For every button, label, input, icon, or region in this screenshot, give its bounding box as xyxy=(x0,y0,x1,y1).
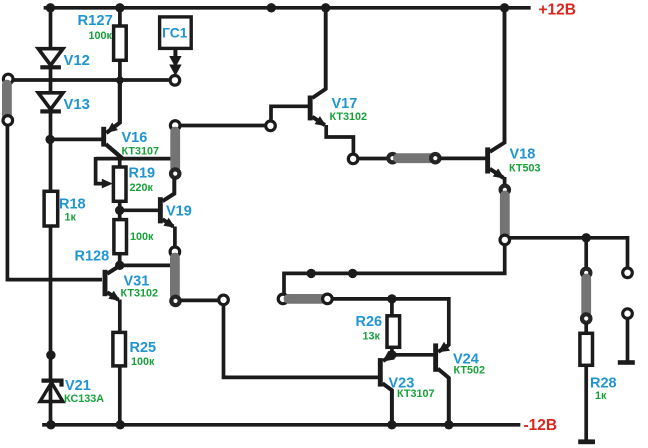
jumper H1 gray bar xyxy=(289,294,322,304)
node junction above R28 xyxy=(582,233,591,242)
resistor R127 xyxy=(114,26,127,60)
node R26 top junction xyxy=(387,294,396,303)
transistor V24 base bar xyxy=(433,343,438,371)
node rail junction V21 xyxy=(46,420,55,429)
arrow V17 emitter (NPN) xyxy=(315,116,327,126)
wire input to GS1 horizontal xyxy=(13,78,169,82)
node R19/R128/V19 junction xyxy=(115,206,124,215)
cable shield segment left xyxy=(2,85,12,116)
wire +12V top rail xyxy=(46,6,529,10)
wire V31 collector lead xyxy=(107,266,120,274)
zener V21 triangle xyxy=(40,383,63,402)
arrow V31 emitter (NPN) xyxy=(108,291,120,301)
zener V21 cathode bar xyxy=(42,381,62,387)
wire V17 collector lead xyxy=(312,8,325,98)
wire R18 bottom to V21 xyxy=(49,226,53,380)
terminal ring D top xyxy=(582,269,590,277)
terminal circle output bottom xyxy=(623,309,633,319)
wire V17 base riser xyxy=(271,106,308,121)
node R26/V23/V24 junction xyxy=(387,350,396,359)
cable segment D xyxy=(581,279,591,314)
wire V19 base xyxy=(120,208,159,212)
svg-text:КТ3102: КТ3102 xyxy=(330,111,367,123)
svg-text:100к: 100к xyxy=(131,356,155,368)
terminal circle V17 base xyxy=(266,121,276,131)
arrow GS1 output xyxy=(173,49,177,60)
transistor V18 base bar xyxy=(485,147,490,173)
svg-text:13к: 13к xyxy=(363,330,381,342)
arrow V24 emitter (PNP) xyxy=(438,342,450,353)
node +12V rail junction above R127 xyxy=(115,3,124,12)
wire V24 collector lead xyxy=(438,369,449,425)
wire D to R28 xyxy=(584,323,588,334)
svg-text:КТ3107: КТ3107 xyxy=(397,388,434,400)
wire V19 emitter lead xyxy=(163,219,174,226)
transistor V19 base bar xyxy=(158,197,163,223)
terminal bar R28 bottom xyxy=(578,439,595,444)
jumper H2 right cap xyxy=(431,154,439,162)
cable segment A xyxy=(170,132,180,169)
wire V23 emitter lead xyxy=(383,355,392,361)
terminal circle output top xyxy=(623,268,633,278)
terminal circle left lower xyxy=(3,116,13,126)
wire terminal down to V23 base xyxy=(224,304,379,377)
svg-text:КТ503: КТ503 xyxy=(509,163,540,175)
node rail junction R25 xyxy=(116,420,125,429)
wire jumper H2 to V18 base xyxy=(440,157,486,161)
arrow V19 emitter (NPN) xyxy=(163,218,175,228)
wire V19 emitter to B xyxy=(173,227,177,248)
terminal circle B bottom xyxy=(171,297,179,305)
terminal circle V23 base link xyxy=(219,295,229,305)
terminal circle C top xyxy=(501,186,509,194)
wire -12V bottom rail xyxy=(44,423,519,427)
node rail junction V24 xyxy=(444,420,453,429)
svg-text:R25: R25 xyxy=(130,340,157,356)
wire C to right connector xyxy=(509,238,627,269)
terminal circle A bottom xyxy=(171,169,179,177)
terminal circle V17 emitter xyxy=(348,154,358,164)
transistor V31 base bar xyxy=(103,270,108,296)
terminal circle A top xyxy=(170,121,180,131)
jumper H2 gray bar xyxy=(398,153,430,163)
svg-text:100к: 100к xyxy=(89,30,113,42)
cable segment B xyxy=(170,258,180,296)
wire V16 base xyxy=(51,138,102,142)
wire V16 collector lead xyxy=(106,144,123,158)
wire R19 bottom to node xyxy=(118,201,122,220)
node V13/R18/V16-base junction xyxy=(45,135,54,144)
wire V21 anode to rail xyxy=(49,384,53,425)
wire R28 column top xyxy=(584,238,588,269)
svg-text:V13: V13 xyxy=(64,97,90,113)
wire R128 bottom to node xyxy=(118,253,122,266)
wire C down and left feedback xyxy=(284,244,505,294)
wire V16 emitter lead xyxy=(106,80,120,134)
svg-text:V21: V21 xyxy=(65,378,91,394)
resistor R26 xyxy=(387,316,400,348)
wire V12 to V13 xyxy=(49,69,53,95)
terminal circle C bottom xyxy=(500,235,510,245)
svg-text:КТ502: КТ502 xyxy=(454,365,485,377)
svg-text:КС133А: КС133А xyxy=(64,393,104,405)
wire V12 anode from rail xyxy=(49,8,53,51)
wire V24 emitter lead xyxy=(438,345,449,352)
wire R127 top xyxy=(118,8,122,27)
arrow V16 emitter (PNP) xyxy=(106,123,118,134)
svg-text:V18: V18 xyxy=(510,147,536,163)
transistor V17 base bar xyxy=(308,96,313,121)
svg-text:1к: 1к xyxy=(595,390,607,402)
wire V17 emitter to terminal xyxy=(326,125,353,154)
wire V18 emitter to terminal xyxy=(503,177,507,186)
svg-text:-12В: -12В xyxy=(524,417,558,434)
wire terminal to jumper H2 xyxy=(358,157,389,161)
wire V18 emitter lead xyxy=(490,169,504,178)
arrow R19 wiper xyxy=(102,179,113,189)
node +12V rail junction dot mid xyxy=(267,3,276,12)
node dot above V21 xyxy=(46,350,55,359)
jumper H1 left cap xyxy=(278,294,288,304)
node rail junction V23 xyxy=(387,420,396,429)
wire R26 bottom stub xyxy=(390,347,394,356)
node +12V rail junction above V18 xyxy=(500,3,509,12)
diode V12 xyxy=(38,49,63,65)
jumper H2 left cap xyxy=(388,154,396,162)
svg-text:V12: V12 xyxy=(64,53,90,69)
arrow V18 emitter (NPN) xyxy=(493,169,505,179)
terminal bar output xyxy=(618,360,635,365)
node R127/GS1/V16 junction xyxy=(116,76,124,84)
svg-text:R19: R19 xyxy=(129,166,156,182)
svg-text:R26: R26 xyxy=(356,314,383,330)
terminal ring D bottom xyxy=(582,314,590,322)
generator GS1 box xyxy=(160,17,192,49)
wire R28 bottom to terminal xyxy=(584,365,588,441)
wire R19 top stub xyxy=(118,159,122,168)
node dot on feedback wire 1 xyxy=(307,269,316,278)
node dot on feedback wire 2 xyxy=(348,269,357,278)
wire R25 bottom to rail xyxy=(118,365,122,425)
terminal circle B top xyxy=(170,247,180,257)
wire R19 top node line to jumper A xyxy=(96,157,171,161)
diode V13 xyxy=(38,93,63,110)
wire V13 cathode to node xyxy=(49,113,53,193)
wire B to terminal xyxy=(180,299,219,303)
resistor R19 xyxy=(113,167,126,201)
svg-text:КТ3107: КТ3107 xyxy=(122,145,159,157)
svg-text:1к: 1к xyxy=(65,211,77,223)
transistor V16 base bar xyxy=(101,127,106,147)
wire V19 collector lead xyxy=(163,178,175,201)
transistor V23 base bar xyxy=(378,358,383,387)
svg-text:R128: R128 xyxy=(75,249,110,265)
wire V31 emitter lead xyxy=(107,292,118,300)
jumper H1 right cap xyxy=(323,294,333,304)
wire output bottom to bar xyxy=(626,318,630,360)
svg-text:R18: R18 xyxy=(59,197,86,213)
wire R19 wiper loop xyxy=(96,157,104,184)
resistor R25 xyxy=(113,332,126,366)
svg-text:КТ3102: КТ3102 xyxy=(121,287,158,299)
svg-text:R127: R127 xyxy=(78,13,113,29)
node R128/V31 junction xyxy=(115,261,124,270)
wire V17 emitter lead xyxy=(312,117,325,125)
wire V31 emitter to R25 xyxy=(118,300,122,334)
svg-text:V19: V19 xyxy=(166,204,192,220)
node +12V rail junction above V12 xyxy=(46,3,55,12)
svg-text:ГС1: ГС1 xyxy=(162,25,188,40)
wire node to jumper B xyxy=(120,264,171,268)
cable segment C xyxy=(500,196,510,236)
node +12V rail junction above V17 xyxy=(321,3,330,12)
wire V18 collector lead xyxy=(490,8,505,152)
wire V24 base xyxy=(392,353,434,357)
resistor R18 xyxy=(44,191,58,226)
wire V23 collector lead xyxy=(383,383,392,425)
resistor R28 xyxy=(580,333,593,365)
wire R127 bottom to node xyxy=(118,60,122,124)
svg-text:V16: V16 xyxy=(122,130,148,146)
wire H1 to V24 emitter corner xyxy=(332,299,449,346)
arrow V23 emitter (PNP) xyxy=(383,351,395,362)
terminal GS1 circle xyxy=(170,76,180,86)
wire left column down to V31 base xyxy=(7,125,102,280)
svg-text:220к: 220к xyxy=(130,182,154,194)
svg-text:+12В: +12В xyxy=(539,2,577,19)
svg-text:100к: 100к xyxy=(130,231,154,243)
wire A to V17 base connector xyxy=(181,124,266,128)
terminal input circle left xyxy=(3,74,13,84)
resistor R128 xyxy=(114,220,127,254)
svg-text:V17: V17 xyxy=(332,96,358,112)
wire R26 top stub xyxy=(390,299,394,317)
